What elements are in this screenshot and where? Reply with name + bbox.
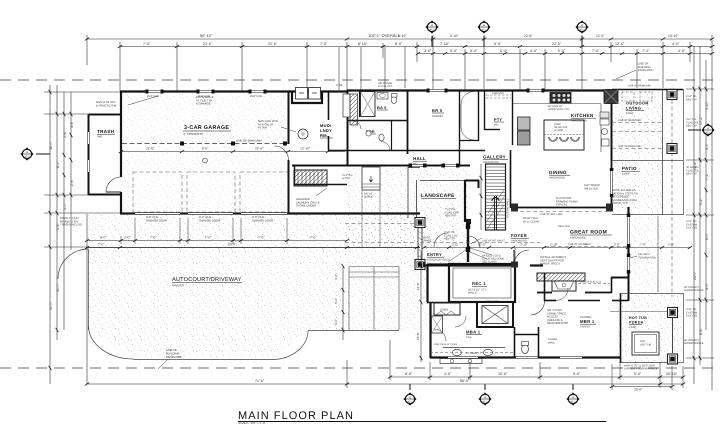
- svg-text:WALLS: WALLS: [468, 292, 477, 295]
- ticks top dims: [85, 38, 714, 55]
- svg-text:7'-4": 7'-4": [642, 49, 650, 53]
- svg-text:4" BB: 4" BB: [336, 84, 343, 87]
- courtyard SE leader cross: [448, 247, 470, 262]
- east boundary line outdoor living/patio: [683, 89, 685, 215]
- svg-text:TRASH ENCLOS: TRASH ENCLOS: [60, 223, 82, 227]
- kitchen island: [544, 120, 584, 150]
- svg-text:4'-0": 4'-0": [678, 49, 686, 53]
- svg-text:21'-6": 21'-6": [146, 147, 155, 151]
- svg-text:102'-1" OVERALL: 102'-1" OVERALL: [368, 33, 401, 38]
- svg-text:5'-0": 5'-0": [558, 49, 566, 53]
- svg-text:KITCHEN: KITCHEN: [571, 113, 594, 118]
- dashed mt vault great room: [545, 246, 627, 248]
- svg-text:FOYER: FOYER: [511, 233, 527, 238]
- svg-text:7'-2": 7'-2": [705, 172, 709, 180]
- svg-text:4" CONCRETE: 4" CONCRETE: [183, 132, 203, 136]
- svg-text:WT SHAFT: WT SHAFT: [486, 300, 499, 303]
- svg-text:80'-0": 80'-0": [460, 379, 470, 383]
- foyer south wall + front door: [449, 264, 543, 266]
- dashed beams to left of columns: [345, 223, 414, 225]
- svg-text:DN BSMT WALL: DN BSMT WALL: [507, 198, 510, 218]
- svg-text:4'-0": 4'-0": [334, 298, 338, 304]
- island stools: [549, 137, 558, 142]
- stair walls: [486, 164, 506, 230]
- svg-text:GARAGE DOOR: GARAGE DOOR: [252, 218, 273, 222]
- svg-text:BR 5: BR 5: [432, 108, 443, 113]
- south wall master block: [430, 356, 620, 358]
- svg-text:25'-0": 25'-0": [634, 388, 643, 392]
- svg-text:LINE OF BEAM ABV: LINE OF BEAM ABV: [628, 85, 651, 88]
- svg-text:GALLERY: GALLERY: [483, 155, 506, 160]
- svg-text:TRASH: TRASH: [97, 129, 115, 134]
- entry walk: [349, 267, 399, 331]
- svg-text:CONC: CONC: [629, 326, 637, 329]
- svg-text:56'-10": 56'-10": [200, 33, 213, 38]
- driveway top edge: [88, 247, 420, 249]
- entry porch floor/wall: [424, 265, 449, 267]
- svg-text:9'-10": 9'-10": [450, 34, 459, 38]
- svg-text:4'-0": 4'-0": [444, 372, 452, 376]
- svg-text:16'-0": 16'-0": [498, 372, 508, 376]
- svg-text:SCREEN/FENCE: SCREEN/FENCE: [684, 289, 704, 292]
- svg-text:10'-2": 10'-2": [699, 116, 703, 125]
- stair dim vertical: [480, 164, 482, 230]
- svg-text:4'-0": 4'-0": [705, 282, 709, 290]
- svg-text:3'x3" COL: 3'x3" COL: [686, 227, 698, 230]
- elevator shaft: [477, 302, 513, 327]
- door garage-mud arc: [275, 146, 289, 160]
- svg-text:PTY: PTY: [494, 118, 502, 122]
- svg-text:GRADE: GRADE: [364, 196, 373, 199]
- wall great room south / mbr north: [544, 300, 628, 302]
- svg-text:W/ 1x CEDAR: W/ 1x CEDAR: [523, 220, 540, 223]
- PDR sink: [366, 131, 371, 136]
- svg-text:22'-0": 22'-0": [524, 34, 533, 38]
- mbr hall wall: [538, 327, 540, 358]
- svg-text:LIVING: LIVING: [626, 106, 641, 111]
- basement stair: [294, 170, 327, 186]
- column HT NE: [668, 308, 678, 318]
- vanity: [443, 347, 505, 349]
- trash door arc: [106, 177, 121, 192]
- wall BA3 block west: [347, 91, 349, 167]
- svg-text:3'-0": 3'-0": [705, 142, 709, 150]
- svg-text:3'-6": 3'-6": [424, 49, 432, 53]
- entry door arc: [434, 233, 448, 247]
- svg-text:ABV TYP: ABV TYP: [686, 173, 697, 176]
- svg-text:ABV TYP: ABV TYP: [686, 98, 697, 101]
- speckle texture front walk: [427, 247, 472, 266]
- svg-text:HARDWOOD: HARDWOOD: [549, 177, 565, 180]
- svg-text:50'-0": 50'-0": [49, 301, 53, 310]
- svg-text:36'-0": 36'-0": [49, 141, 53, 150]
- svg-text:MBA 1: MBA 1: [466, 330, 481, 335]
- dashed flat clg: [578, 283, 610, 285]
- wall great room north: [513, 207, 611, 209]
- stair treads: [486, 167, 506, 228]
- svg-text:18'-8": 18'-8": [416, 332, 420, 340]
- svg-text:WD: WD: [413, 163, 417, 166]
- svg-text:12'-6": 12'-6": [596, 34, 605, 38]
- grid bubble C bottom: [403, 392, 416, 405]
- svg-text:10'-0": 10'-0": [478, 243, 486, 247]
- skylight dashed boxes outdoor living: [622, 92, 634, 101]
- beam posts: [180, 142, 184, 146]
- svg-text:9'-0": 9'-0": [100, 236, 107, 240]
- svg-text:SCALE: 1/4" = 1'-0": SCALE: 1/4" = 1'-0": [238, 421, 266, 425]
- doors BA3/PDR arcs: [353, 121, 361, 129]
- laundry sink: [298, 129, 308, 139]
- BA3 walls: [359, 91, 361, 117]
- dashed mt vault line foyer: [420, 242, 540, 244]
- svg-text:7'-0": 7'-0": [320, 42, 328, 46]
- hall exterior landing: [362, 167, 380, 190]
- svg-text:TILE: TILE: [466, 336, 472, 339]
- svg-text:LINE OF WALL ABV: LINE OF WALL ABV: [540, 213, 563, 216]
- linen closet: [434, 303, 460, 315]
- hall south wall: [292, 165, 470, 167]
- property line top (dashed): [0, 79, 720, 81]
- svg-text:7'-0": 7'-0": [98, 243, 105, 247]
- BA5 shower: [361, 92, 376, 117]
- svg-text:CARPET: CARPET: [580, 326, 591, 329]
- svg-text:5'-0": 5'-0": [202, 147, 209, 151]
- porch wall post: [467, 222, 469, 262]
- wc room: [514, 327, 516, 358]
- svg-text:WALL: WALL: [548, 341, 556, 344]
- svg-text:13'-10": 13'-10": [668, 34, 679, 38]
- grid bubble D bottom: [478, 392, 491, 405]
- BA5 toilet: [391, 97, 397, 104]
- svg-text:SCREEN/FENCE: SCREEN/FENCE: [684, 342, 704, 345]
- patio east edge: [662, 90, 664, 216]
- svg-text:3-CAR GARAGE: 3-CAR GARAGE: [184, 125, 229, 131]
- svg-text:7'-0": 7'-0": [640, 243, 646, 247]
- mba west wall: [429, 302, 431, 358]
- dashed flat clg line mba: [430, 352, 514, 354]
- svg-text:DINING: DINING: [549, 170, 567, 175]
- chute area walls: [294, 165, 296, 185]
- svg-text:WEATHERSTRIP: WEATHERSTRIP: [547, 322, 568, 325]
- bay window vanity: [440, 359, 482, 364]
- PDR toilet: [379, 134, 384, 141]
- svg-text:5'-10": 5'-10": [705, 101, 709, 110]
- dim row garage doors: [87, 240, 347, 242]
- speckle texture patio / outdoor living: [612, 90, 662, 215]
- svg-text:7'-0": 7'-0": [310, 236, 317, 240]
- svg-text:4'-0": 4'-0": [672, 42, 680, 46]
- svg-text:21'-6": 21'-6": [268, 42, 278, 46]
- svg-text:PAD: PAD: [97, 136, 102, 139]
- svg-text:TERMINATION: TERMINATION: [638, 256, 656, 259]
- driveway right lower edge: [308, 330, 399, 332]
- rec1 walls: [449, 264, 515, 302]
- svg-text:5'-2": 5'-2": [699, 197, 703, 205]
- pantry shelves dashed: [486, 95, 511, 98]
- svg-text:PAVERS: PAVERS: [172, 284, 184, 288]
- right margin small texts: [686, 95, 700, 318]
- svg-text:4'-6": 4'-6": [70, 120, 74, 128]
- wall mud east: [328, 92, 330, 121]
- svg-text:BA 5: BA 5: [377, 106, 387, 110]
- svg-text:CONC: CONC: [626, 112, 634, 115]
- dim row mid great room: [424, 247, 690, 249]
- svg-text:FINISH, TYP.: FINISH, TYP.: [612, 202, 628, 205]
- courtyard east wall thick: [464, 180, 466, 222]
- grid bubble right: [688, 129, 701, 131]
- svg-text:STORE UNDER: STORE UNDER: [296, 204, 316, 208]
- patio north edge: [612, 160, 683, 162]
- svg-text:24'-0": 24'-0": [693, 271, 697, 280]
- BA5 vanity: [377, 93, 388, 100]
- column entry NW: [415, 218, 425, 228]
- garage top windows: [147, 91, 265, 93]
- kitchen cooktop: [550, 93, 571, 104]
- svg-text:22'-0": 22'-0": [552, 42, 562, 46]
- column HT SE: [668, 354, 678, 364]
- dim line overall 102'-1": [87, 35, 712, 390]
- svg-text:5'-0": 5'-0": [668, 243, 674, 247]
- trash room walls: [89, 114, 122, 116]
- svg-text:7'-0": 7'-0": [258, 236, 265, 240]
- washer dryer: [296, 88, 308, 100]
- svg-text:6'-0": 6'-0": [705, 232, 709, 240]
- svg-text:RM.: RM.: [320, 133, 328, 138]
- svg-text:ENVELOPE: ENVELOPE: [638, 69, 653, 72]
- mud cubby hatched band: [343, 94, 350, 117]
- svg-text:8'-10": 8'-10": [358, 42, 368, 46]
- svg-text:21'-6": 21'-6": [203, 42, 213, 46]
- dim line row 2: [120, 35, 712, 91]
- fireplace wall: [537, 273, 585, 281]
- svg-text:8'-6": 8'-6": [699, 327, 703, 335]
- svg-text:2'x2' FXD: 2'x2' FXD: [250, 94, 262, 98]
- speckle texture garage floor: [121, 92, 288, 213]
- covered dashes outdoor living: [612, 100, 672, 297]
- floor drain: [203, 158, 208, 163]
- svg-text:ENVELOPE: ENVELOPE: [166, 355, 182, 359]
- grid bubble 4 top: [575, 20, 588, 33]
- window band between columns: [417, 228, 419, 259]
- speckle texture courtyard: [346, 166, 470, 247]
- grid bubble left: [20, 147, 33, 160]
- svg-text:9'-0": 9'-0": [494, 42, 502, 46]
- vertical dim marks between garage and driveway rows: [121, 218, 287, 244]
- svg-text:GREAT ROOM: GREAT ROOM: [570, 230, 607, 236]
- driveway left edge: [88, 249, 90, 330]
- door arcs mba: [434, 329, 446, 341]
- svg-text:LO-LVL OFF: LO-LVL OFF: [378, 85, 393, 88]
- wall garage bottom: [120, 212, 420, 214]
- svg-text:5'-10": 5'-10": [550, 243, 558, 247]
- svg-text:TYPICAL: TYPICAL: [556, 204, 568, 207]
- BR5 closet doors: [461, 92, 474, 105]
- svg-text:7'-10": 7'-10": [440, 42, 450, 46]
- svg-text:WD: WD: [494, 124, 498, 127]
- svg-text:6' PRIVACY SCREEN/FENCE: 6' PRIVACY SCREEN/FENCE: [624, 368, 658, 371]
- walk dims vertical: [342, 266, 344, 340]
- hot tub: [632, 332, 659, 355]
- patio south edge: [612, 214, 683, 216]
- svg-text:8'-0": 8'-0": [395, 42, 403, 46]
- svg-text:GARAGE DOOR: GARAGE DOOR: [146, 218, 167, 222]
- svg-text:SHELVES: SHELVES: [492, 92, 504, 95]
- svg-text:PATIO: PATIO: [622, 166, 637, 171]
- svg-text:LINE OF BEAM ABV: LINE OF BEAM ABV: [236, 139, 262, 143]
- outdoor living north wall: [612, 89, 683, 91]
- porch outline: [620, 293, 622, 363]
- garage door bay dashed outlines: [133, 172, 288, 212]
- dim row 3: [418, 53, 712, 55]
- svg-text:8'-10": 8'-10": [398, 34, 407, 38]
- svg-text:LINE OF BEAM ABV: LINE OF BEAM ABV: [618, 145, 641, 148]
- svg-text:2'-6": 2'-6": [63, 130, 67, 138]
- svg-text:VAULTED: VAULTED: [558, 225, 570, 228]
- svg-text:& GARAGE: & GARAGE: [196, 102, 211, 106]
- svg-text:ABV TYP: ABV TYP: [686, 125, 697, 128]
- svg-text:MBR 1: MBR 1: [580, 319, 595, 324]
- svg-text:4'-4": 4'-4": [530, 49, 538, 53]
- kitchen fridge/ovens: [518, 117, 531, 130]
- grid bubble 3 top: [477, 20, 490, 33]
- dining east glass wall: [611, 160, 613, 208]
- garage interior dim row: [121, 151, 345, 153]
- grid bubble E bottom: [566, 392, 579, 405]
- speckle strip east of great room: [630, 216, 662, 292]
- svg-text:AUTOCOURT/DRIVEWAY: AUTOCOURT/DRIVEWAY: [172, 276, 242, 283]
- svg-text:SM (x) SLD: SM (x) SLD: [584, 187, 598, 190]
- walk edge east of great room: [657, 216, 659, 292]
- svg-text:REC 1: REC 1: [472, 281, 486, 286]
- dashed line of beam above garage: [122, 143, 288, 145]
- svg-text:88'-0": 88'-0": [228, 243, 237, 247]
- washer dryer alcove wall jog: [292, 92, 322, 104]
- svg-text:HOT TUB: HOT TUB: [640, 343, 652, 346]
- speckle texture driveway: [88, 214, 427, 358]
- wall garage west: [120, 92, 122, 125]
- svg-text:7'-4": 7'-4": [592, 49, 600, 53]
- svg-text:8'-1": 8'-1": [56, 160, 60, 168]
- column entry SW: [415, 260, 425, 270]
- svg-text:5'-4": 5'-4": [450, 49, 458, 53]
- svg-text:LINE OF FLAT CLG: LINE OF FLAT CLG: [580, 280, 601, 283]
- svg-text:PORCH: PORCH: [629, 321, 644, 325]
- svg-text:12'-10": 12'-10": [300, 147, 311, 151]
- wall entry-south to rec: [426, 264, 428, 302]
- svg-text:7'-0": 7'-0": [150, 236, 157, 240]
- svg-text:30'-0": 30'-0": [56, 283, 60, 292]
- svg-text:LINE OF BEAM ABV: LINE OF BEAM ABV: [618, 119, 641, 122]
- svg-text:CONC: CONC: [622, 173, 630, 176]
- svg-text:12'-6": 12'-6": [615, 42, 625, 46]
- driveway entry arc top-left: [58, 249, 88, 279]
- outdoor grill counter: [604, 90, 618, 104]
- west wall to mba hall: [544, 273, 546, 301]
- svg-text:w/ TRK: w/ TRK: [342, 177, 350, 180]
- great room south-east walls: [611, 277, 629, 279]
- garage doors (thin): [135, 213, 287, 215]
- svg-text:3'-0": 3'-0": [452, 243, 458, 247]
- svg-text:71'-6": 71'-6": [255, 379, 265, 383]
- svg-text:HOOD VENT VTD: HOOD VENT VTD: [548, 108, 569, 111]
- svg-text:8'-0": 8'-0": [405, 372, 413, 376]
- dim line master block west: [420, 252, 422, 362]
- column OL NE: [667, 90, 677, 100]
- wall gallery east: [510, 150, 512, 208]
- speckle texture hot tub porch: [616, 293, 683, 363]
- BR5 walls: [459, 91, 461, 166]
- svg-text:3'-4": 3'-4": [470, 49, 478, 53]
- pantry walls: [484, 91, 486, 130]
- svg-text:LANDSCAPE: LANDSCAPE: [421, 193, 455, 199]
- stair rail: [494, 196, 496, 230]
- svg-text:CARPET: CARPET: [432, 114, 444, 118]
- svg-text:LINE OF FLAT CLNG: LINE OF FLAT CLNG: [434, 343, 457, 346]
- svg-text:HARDWOOD: HARDWOOD: [570, 237, 586, 240]
- svg-text:5'-0": 5'-0": [634, 372, 642, 376]
- courtyard outline: [408, 168, 466, 219]
- property line bottom (dashed): [0, 367, 720, 369]
- svg-text:PLTFM: PLTFM: [258, 126, 268, 130]
- svg-text:3'-10": 3'-10": [520, 243, 528, 247]
- driveway bottom edge: [134, 359, 273, 361]
- svg-text:4'-0": 4'-0": [334, 319, 338, 325]
- dim row 88'-0": [87, 247, 420, 249]
- svg-text:w/ SINK: w/ SINK: [554, 129, 564, 132]
- svg-text:3'-0": 3'-0": [63, 202, 67, 210]
- svg-text:MANUF. SPECS: MANUF. SPECS: [540, 263, 560, 266]
- svg-text:21'-6": 21'-6": [255, 147, 264, 151]
- svg-text:COVERED PORCH: COVERED PORCH: [427, 259, 450, 262]
- porch dim row: [612, 386, 672, 388]
- kitchen counters along top: [513, 103, 601, 105]
- svg-text:ABV TYP: ABV TYP: [445, 215, 457, 218]
- svg-text:2'-0": 2'-0": [614, 243, 620, 247]
- svg-text:HARDWOOD: HARDWOOD: [571, 120, 587, 123]
- wall top main (mud to kitchen): [347, 89, 612, 91]
- svg-text:7'-0": 7'-0": [582, 243, 588, 247]
- great room east wall: [627, 207, 629, 277]
- svg-text:ENTRY: ENTRY: [427, 252, 442, 257]
- svg-text:GRADE: GRADE: [422, 240, 432, 243]
- mba shower: [432, 316, 443, 333]
- svg-text:HOT TUB: HOT TUB: [629, 316, 647, 320]
- svg-text:2'-6": 2'-6": [70, 178, 74, 186]
- svg-text:7'-0": 7'-0": [143, 42, 151, 46]
- svg-text:HALL: HALL: [413, 156, 426, 161]
- driveway bottom-left arc: [89, 326, 134, 359]
- wall garage east / mud west: [288, 92, 290, 145]
- wall garage top: [120, 90, 347, 92]
- svg-text:4'-0": 4'-0": [334, 274, 338, 280]
- svg-text:& FRNC PLTFM: & FRNC PLTFM: [96, 103, 117, 107]
- svg-text:7'-0": 7'-0": [205, 236, 212, 240]
- svg-text:GARAGE DOOR: GARAGE DOOR: [199, 218, 220, 222]
- stair diagonal hatch: [487, 190, 504, 229]
- svg-text:ABV TYP: ABV TYP: [444, 238, 456, 241]
- svg-text:9'-0": 9'-0": [573, 372, 581, 376]
- hall north wall: [328, 150, 485, 152]
- svg-text:2'-0": 2'-0": [124, 236, 131, 240]
- grid bubble 2 top: [425, 20, 438, 33]
- svg-text:12'-0": 12'-0": [416, 282, 420, 290]
- driveway bottom-right arc: [272, 331, 308, 360]
- column OL SE: [667, 144, 677, 154]
- kitchen east wall + counter: [611, 91, 613, 161]
- svg-text:3'x3" COL: 3'x3" COL: [686, 315, 698, 318]
